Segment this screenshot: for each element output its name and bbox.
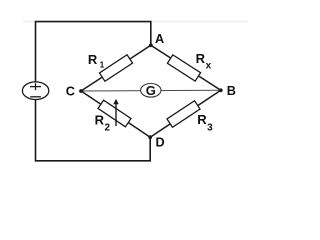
svg-text:C: C <box>66 85 75 99</box>
wire: arm C to D <box>81 91 150 137</box>
svg-text:R: R <box>95 113 105 128</box>
wire: arm D to B <box>150 90 221 137</box>
svg-text:D: D <box>156 136 165 150</box>
node A <box>149 43 153 47</box>
battery V1 <box>22 82 48 100</box>
node B <box>219 88 223 92</box>
resistor Rx <box>167 55 200 81</box>
arrow on R2 (wiper) <box>113 99 119 126</box>
svg-text:R: R <box>197 112 207 127</box>
svg-text:R: R <box>88 52 98 67</box>
wire: top loop from battery top to node A <box>36 22 151 83</box>
svg-text:R: R <box>196 51 206 66</box>
svg-text:x: x <box>206 61 212 72</box>
wire: bottom loop from battery bottom to node D <box>36 99 151 161</box>
svg-text:G: G <box>146 83 156 98</box>
node D <box>148 135 152 139</box>
svg-text:A: A <box>155 32 164 46</box>
wire: arm C to A <box>81 45 151 91</box>
resistor R3 <box>167 101 200 128</box>
resistor R2 (variable) <box>98 100 131 127</box>
faint top rule <box>23 21 248 23</box>
svg-text:1: 1 <box>100 61 105 70</box>
wire: arm A to B <box>151 45 221 90</box>
svg-text:2: 2 <box>105 123 111 134</box>
svg-text:B: B <box>227 84 236 98</box>
resistor R1 <box>99 55 132 81</box>
svg-text:3: 3 <box>207 123 213 134</box>
wire: galvanometer branch C to B <box>81 89 221 92</box>
node C <box>79 89 83 93</box>
galvanometer G <box>141 83 161 98</box>
